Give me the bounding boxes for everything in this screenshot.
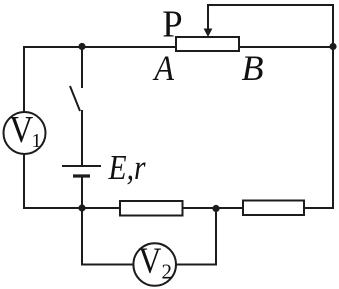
svg-text:P: P bbox=[162, 4, 182, 46]
wire V2 right branch bbox=[177, 208, 217, 265]
wire bottom-right horizontal bbox=[304, 207, 334, 209]
voltmeter V2 circle bbox=[133, 243, 176, 286]
wire wiper vertical bbox=[207, 4, 209, 30]
wire switch lower to battery bbox=[81, 110, 83, 166]
battery E short plate bbox=[73, 174, 90, 177]
battery E long plate bbox=[62, 165, 101, 167]
svg-text:V: V bbox=[9, 109, 33, 151]
wire bottom-left horizontal bbox=[23, 207, 120, 209]
resistor R2 body bbox=[243, 201, 304, 216]
wire V2 left branch bbox=[82, 208, 133, 265]
switch S blade bbox=[70, 86, 80, 111]
wire right vertical bbox=[332, 5, 334, 209]
node junction top-right bbox=[329, 43, 336, 50]
voltmeter V1 circle bbox=[4, 112, 46, 154]
wire left vertical lower bbox=[23, 154, 25, 209]
wire left vertical upper bbox=[23, 46, 25, 112]
svg-text:A: A bbox=[153, 48, 175, 88]
wire switch upper bbox=[81, 46, 83, 88]
resistor R1 body bbox=[120, 201, 183, 216]
svg-text:B: B bbox=[242, 48, 264, 88]
wire bottom-middle horizontal bbox=[182, 207, 243, 209]
svg-text:1: 1 bbox=[32, 130, 42, 152]
wire wiper top horizontal bbox=[208, 4, 334, 6]
wire top-left horizontal bbox=[24, 46, 176, 48]
node junction bottom battery bbox=[78, 204, 85, 211]
svg-text:E,r: E,r bbox=[108, 148, 146, 187]
node junction bottom between resistors bbox=[212, 205, 219, 212]
svg-text:2: 2 bbox=[162, 260, 173, 284]
wire top-right horizontal bbox=[239, 46, 333, 48]
wire battery to bottom node bbox=[81, 176, 83, 209]
node junction top-left of switch branch bbox=[78, 43, 85, 50]
wiper arrowhead bbox=[204, 29, 213, 38]
rheostat P body bbox=[176, 37, 239, 51]
svg-text:V: V bbox=[138, 241, 161, 282]
